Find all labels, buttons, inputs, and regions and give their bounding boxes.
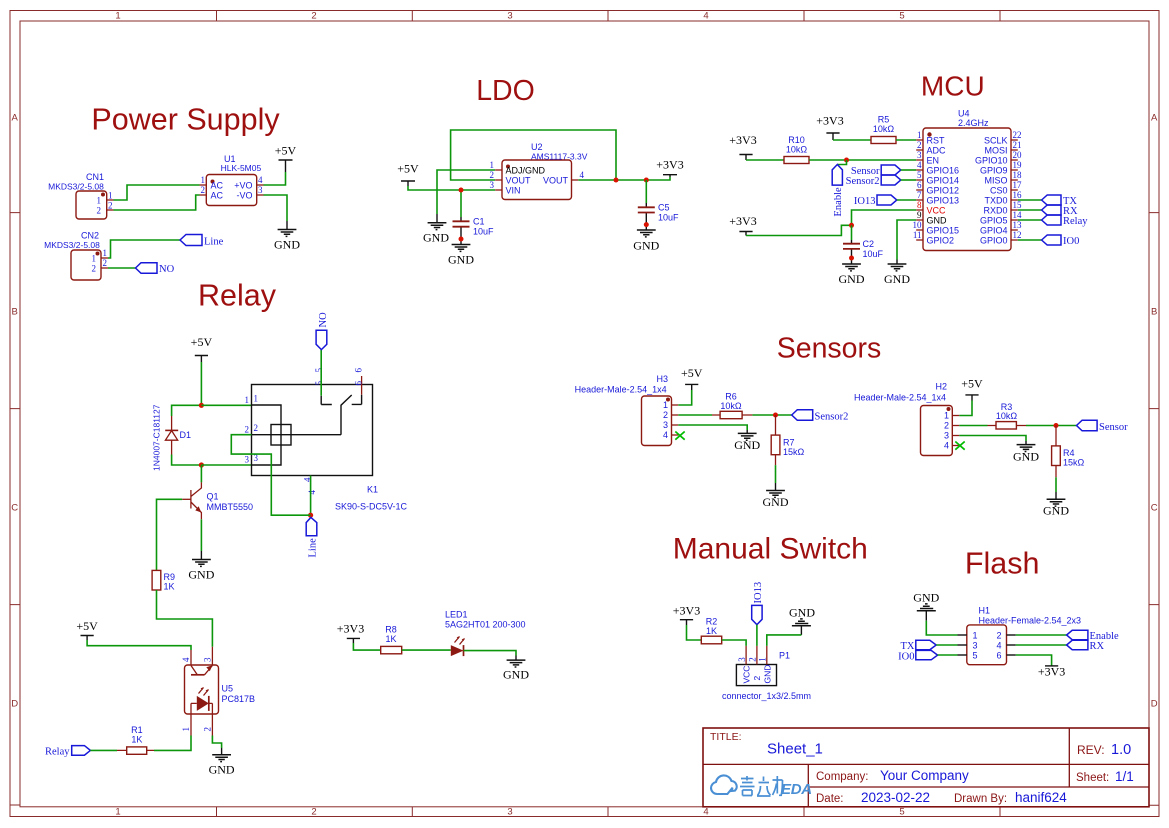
net flag NO	[136, 263, 175, 275]
svg-text:NO: NO	[159, 264, 175, 275]
wire IO13 to U4.GPIO13	[897, 199, 916, 201]
svg-text:NO: NO	[318, 312, 329, 328]
svg-text:1: 1	[92, 254, 97, 264]
svg-text:10uF: 10uF	[658, 213, 679, 223]
svg-text:GND: GND	[503, 668, 529, 682]
svg-text:19: 19	[1013, 160, 1023, 170]
svg-text:U2: U2	[531, 142, 543, 152]
connector P1	[722, 651, 811, 702]
svg-text:Q1: Q1	[207, 492, 219, 502]
led LED1	[445, 610, 526, 657]
svg-text:AC: AC	[211, 191, 224, 201]
svg-text:SCLK: SCLK	[984, 135, 1008, 145]
svg-text:4: 4	[181, 657, 191, 662]
svg-text:2023-02-22: 2023-02-22	[861, 790, 930, 805]
svg-text:GND: GND	[1043, 504, 1069, 518]
wire H3.3 to GND	[678, 425, 747, 430]
capacitor C2	[843, 225, 884, 264]
power +5V (LDO)	[397, 162, 419, 187]
net flag Sensor2 (H3)	[792, 410, 849, 423]
svg-text:2: 2	[103, 258, 108, 268]
junction lower node	[199, 462, 204, 467]
pin 1 H2	[952, 415, 959, 417]
net flag TX (H1)	[901, 640, 937, 652]
svg-text:4: 4	[258, 175, 263, 185]
svg-text:Sensor2: Sensor2	[846, 176, 880, 187]
junction VOUT node	[614, 178, 619, 183]
svg-text:4: 4	[703, 807, 708, 818]
svg-text:VOUT: VOUT	[506, 176, 532, 186]
resistor R9 1K	[152, 570, 175, 591]
power +3V3 (R10)	[729, 133, 756, 160]
svg-text:16: 16	[1013, 190, 1023, 200]
svg-text:+VO: +VO	[234, 181, 252, 191]
svg-text:5: 5	[899, 11, 904, 22]
ground GND (H1)	[913, 591, 939, 621]
svg-text:Relay: Relay	[45, 747, 70, 758]
svg-text:A: A	[12, 113, 19, 124]
pin 2 CN2	[101, 267, 108, 269]
svg-text:R8: R8	[385, 625, 397, 635]
pin 5 GPIO14	[916, 179, 923, 181]
svg-text:4: 4	[917, 160, 922, 170]
svg-text:Flash: Flash	[965, 547, 1040, 581]
pin 1 H3	[672, 404, 679, 406]
svg-text:10kΩ: 10kΩ	[996, 411, 1018, 421]
svg-text:VIN: VIN	[506, 186, 521, 196]
wire TX to H1.3	[936, 644, 957, 646]
svg-text:5: 5	[899, 807, 904, 818]
power +5V (opto)	[76, 619, 98, 640]
relay K1 body	[252, 385, 408, 512]
svg-text:2: 2	[108, 200, 113, 210]
svg-text:+5V: +5V	[191, 335, 213, 349]
wire Sensor2 to U4.GPIO14	[901, 179, 916, 181]
pin 4 H2	[952, 445, 959, 447]
wire R8 to LED1	[402, 649, 451, 651]
pin 12 GPIO0	[1011, 239, 1018, 241]
resistor R8 1K	[381, 625, 402, 654]
pin 3 P1	[745, 646, 747, 665]
svg-text:REV:: REV:	[1077, 743, 1105, 757]
svg-text:GPIO13: GPIO13	[927, 195, 960, 205]
wire Sensor to U4.GPIO16	[901, 169, 916, 171]
svg-text:4: 4	[996, 640, 1001, 650]
svg-text:Drawn By:: Drawn By:	[954, 793, 1007, 805]
svg-text:2: 2	[311, 807, 316, 818]
svg-text:3: 3	[258, 185, 263, 195]
svg-text:Sheet:: Sheet:	[1076, 772, 1109, 784]
wire R4 to GND	[1055, 477, 1057, 492]
svg-text:GND: GND	[274, 238, 300, 252]
ground GND (U5)	[209, 748, 235, 777]
pin 6 GPIO12	[916, 189, 923, 191]
svg-text:VCC: VCC	[927, 205, 947, 215]
svg-text:+3V3: +3V3	[337, 622, 364, 636]
wire H3.1 to +5V	[678, 390, 691, 405]
svg-text:HLK-5M05: HLK-5M05	[221, 163, 262, 173]
svg-text:4: 4	[944, 441, 949, 451]
ground GND (C1)	[448, 245, 474, 267]
svg-text:1K: 1K	[706, 626, 717, 636]
power +3V3 (H1, inverted)	[1038, 665, 1065, 679]
wire +3V3 to R8	[353, 643, 380, 650]
pin 22 SCLK	[1011, 139, 1018, 141]
svg-text:D1: D1	[180, 430, 192, 440]
wire TXD0 to TX flag	[1018, 199, 1042, 201]
pin 2 H2	[952, 425, 959, 427]
svg-text:9: 9	[917, 210, 922, 220]
svg-text:11: 11	[913, 230, 922, 240]
pin 20 GPIO10	[1011, 159, 1018, 161]
ground GND (R4)	[1043, 492, 1069, 518]
wire node to D1 top	[172, 405, 202, 416]
svg-text:CS0: CS0	[990, 185, 1008, 195]
svg-text:3: 3	[245, 455, 250, 465]
wire D1 bottom to lower node	[172, 455, 202, 466]
pin 4 GPIO16	[916, 169, 923, 171]
wire Relay flag to R1	[90, 749, 117, 751]
svg-text:GND: GND	[763, 495, 789, 509]
wire U2.2 VOUT loop to output	[451, 130, 616, 180]
svg-text:GND: GND	[927, 215, 948, 225]
svg-text:Relay: Relay	[198, 279, 277, 313]
pin 2 H3	[672, 414, 679, 416]
svg-text:1: 1	[115, 807, 120, 818]
connector CN2	[44, 231, 101, 281]
wire U5.2 to GND	[212, 736, 221, 749]
wire LED1 to GND	[464, 651, 517, 656]
power +5V (relay coil)	[191, 335, 213, 362]
svg-text:1/1: 1/1	[1115, 769, 1134, 784]
svg-text:7: 7	[917, 190, 922, 200]
svg-text:21: 21	[1013, 140, 1022, 150]
svg-text:8: 8	[917, 200, 922, 210]
svg-text:C2: C2	[863, 239, 875, 249]
svg-text:B: B	[1151, 307, 1157, 318]
net flag IO0 (H1)	[898, 650, 937, 662]
power +5V	[275, 144, 297, 173]
svg-text:ADJ/GND: ADJ/GND	[506, 166, 546, 176]
svg-text:5: 5	[917, 170, 922, 180]
pin 3 U1	[257, 194, 264, 196]
svg-text:1K: 1K	[131, 735, 142, 745]
svg-text:3: 3	[507, 807, 512, 818]
svg-text:1: 1	[97, 196, 102, 206]
pin 4 U2	[572, 179, 579, 181]
svg-text:2: 2	[254, 423, 259, 433]
svg-text:+5V: +5V	[76, 619, 98, 633]
pin 2 ADC	[916, 149, 923, 151]
header H2	[854, 382, 952, 456]
wire R10 to U4.EN	[809, 159, 916, 161]
svg-text:VCC: VCC	[742, 666, 752, 684]
net flag Relay	[1042, 215, 1089, 227]
svg-text:1: 1	[245, 395, 250, 405]
svg-text:K1: K1	[367, 485, 378, 495]
svg-text:R4: R4	[1063, 448, 1075, 458]
svg-text:1: 1	[115, 11, 120, 22]
svg-text:A: A	[1151, 113, 1158, 124]
svg-text:+3V3: +3V3	[816, 114, 843, 128]
svg-text:6: 6	[996, 650, 1001, 660]
pin 16 TXD0	[1011, 199, 1018, 201]
svg-text:VOUT: VOUT	[543, 176, 569, 186]
svg-text:5: 5	[972, 650, 977, 660]
wire U1.4 to +5V	[264, 172, 286, 185]
svg-text:3: 3	[737, 657, 747, 662]
svg-text:TXD0: TXD0	[984, 195, 1007, 205]
ground GND (ADJ)	[423, 214, 449, 245]
power +5V (H2)	[961, 377, 983, 401]
no-connect X H3.4	[675, 432, 684, 440]
svg-text:GPIO12: GPIO12	[927, 185, 960, 195]
svg-text:MCU: MCU	[921, 71, 985, 102]
wire lower node to K1.3	[201, 464, 251, 466]
resistor R7 15k	[771, 415, 804, 465]
wire U2.1 ADJ to GND	[437, 170, 495, 214]
svg-text:10: 10	[913, 220, 923, 230]
svg-text:CN2: CN2	[81, 231, 99, 241]
wire IO13 to P1.2	[756, 625, 758, 646]
svg-text:IO13: IO13	[753, 582, 764, 604]
net flag Relay (opto input)	[45, 746, 90, 758]
svg-text:18: 18	[1013, 170, 1023, 180]
svg-text:GND: GND	[789, 606, 815, 620]
pin 1 RST	[916, 139, 923, 141]
svg-text:Header-Female-2.54_2x3: Header-Female-2.54_2x3	[979, 616, 1082, 626]
pin 1 H1	[958, 634, 967, 636]
svg-text:20: 20	[1013, 150, 1023, 160]
net flag IO13 (switch)	[752, 582, 765, 625]
wire R3 to Sensor flag	[1026, 425, 1077, 427]
svg-text:1K: 1K	[385, 634, 396, 644]
svg-text:2: 2	[203, 727, 213, 732]
svg-text:+3V3: +3V3	[729, 214, 756, 228]
svg-text:1: 1	[108, 190, 113, 200]
wire CN1.2 to U1.2	[114, 195, 200, 210]
wire R7 to GND	[775, 465, 777, 483]
svg-text:GND: GND	[423, 231, 449, 245]
wire node to K1.1	[201, 404, 251, 406]
svg-text:D: D	[1151, 699, 1158, 710]
wire VCC node to U4.VCC	[852, 210, 917, 225]
wire K1.4 down to Line node	[310, 476, 312, 516]
svg-text:GND: GND	[913, 591, 939, 605]
pin 14 GPIO5	[1011, 219, 1018, 221]
svg-text:3: 3	[507, 11, 512, 22]
svg-text:10uF: 10uF	[863, 249, 884, 259]
svg-text:1: 1	[972, 630, 977, 640]
svg-text:R7: R7	[783, 438, 795, 448]
svg-text:D: D	[11, 699, 18, 710]
svg-text:15: 15	[1013, 200, 1023, 210]
pin 1 U2	[495, 169, 502, 171]
capacitor C1	[453, 190, 495, 245]
pin 2 H1	[1007, 634, 1016, 636]
svg-text:22: 22	[1013, 130, 1022, 140]
wire +3V3 to R5	[833, 139, 871, 141]
wire IO0 to H1.5	[938, 654, 958, 656]
pin 1 CN2	[101, 257, 108, 259]
ground GND (H3.3)	[734, 430, 760, 452]
svg-text:H1: H1	[979, 606, 991, 616]
svg-text:MISO: MISO	[984, 175, 1007, 185]
ground GND (U4)	[884, 260, 910, 287]
wire EN to Enable flag	[837, 160, 846, 165]
svg-text:EDA: EDA	[781, 781, 812, 798]
pin 11 GPIO2	[916, 239, 923, 241]
resistor R1 1K	[117, 725, 154, 754]
svg-text:MMBT5550: MMBT5550	[207, 502, 254, 512]
wire R9 to U5.3	[157, 590, 213, 647]
svg-text:AMS1117-3.3V: AMS1117-3.3V	[531, 152, 588, 162]
svg-text:-VO: -VO	[236, 191, 252, 201]
wire Q1 emitter to GND	[200, 519, 202, 551]
net flag IO0	[1042, 235, 1080, 247]
svg-text:15kΩ: 15kΩ	[1063, 458, 1085, 468]
junction VCC node	[849, 223, 854, 228]
junction Sensor2 node	[773, 413, 778, 418]
svg-text:2: 2	[92, 264, 97, 274]
wire R1 to U5.1	[154, 736, 191, 751]
ground GND (Q1)	[188, 551, 214, 582]
svg-text:2: 2	[201, 185, 206, 195]
svg-text:1N4007-C181127: 1N4007-C181127	[152, 404, 162, 471]
svg-text:3: 3	[972, 640, 977, 650]
wire CN2.1 to Line flag	[108, 240, 180, 258]
pin 2 CN1	[107, 209, 114, 211]
net flag Sensor2	[846, 175, 901, 187]
svg-text:GPIO4: GPIO4	[980, 225, 1008, 235]
svg-text:3: 3	[490, 180, 495, 190]
svg-text:2.4GHz: 2.4GHz	[958, 118, 989, 128]
svg-text:IO0: IO0	[1063, 236, 1079, 247]
svg-text:AC: AC	[211, 181, 224, 191]
power +3V3 (P1)	[673, 604, 700, 626]
svg-text:Sensors: Sensors	[777, 333, 882, 365]
svg-text:Header-Male-2.54_1x4: Header-Male-2.54_1x4	[575, 385, 667, 395]
svg-text:1: 1	[917, 130, 922, 140]
svg-text:R2: R2	[706, 617, 718, 627]
ground GND (C2)	[839, 264, 865, 286]
svg-text:Header-Male-2.54_1x4: Header-Male-2.54_1x4	[854, 393, 946, 403]
svg-text:Power Supply: Power Supply	[91, 103, 280, 137]
wire +5V down to coil node	[200, 362, 202, 405]
svg-text:LDO: LDO	[476, 75, 535, 107]
wire R5 to U4.RST	[896, 139, 916, 141]
svg-text:12: 12	[1013, 230, 1022, 240]
pin 3 H2	[952, 435, 959, 437]
svg-text:10uF: 10uF	[473, 227, 494, 237]
svg-text:RX: RX	[1090, 641, 1105, 652]
svg-text:GPIO0: GPIO0	[980, 235, 1008, 245]
svg-text:2: 2	[311, 11, 316, 22]
wire U2.4 to +3V3	[578, 177, 670, 180]
svg-text:+5V: +5V	[275, 144, 297, 158]
svg-text:2: 2	[748, 657, 758, 662]
net flag RX (H1)	[1067, 640, 1105, 652]
svg-text:Sheet_1: Sheet_1	[767, 741, 823, 758]
svg-text:3: 3	[944, 431, 949, 441]
svg-text:H3: H3	[657, 374, 669, 384]
svg-text:5AG2HT01 200-300: 5AG2HT01 200-300	[445, 620, 526, 630]
svg-text:IO13: IO13	[854, 196, 876, 207]
svg-text:H2: H2	[936, 382, 948, 392]
pin 4 U1	[257, 184, 264, 186]
svg-text:Line: Line	[308, 538, 319, 558]
power +3V3 (R5)	[816, 114, 843, 141]
resistor R4 15k	[1052, 426, 1085, 478]
wire +5V to U2.VIN	[408, 186, 495, 190]
wire GND to P1.1	[767, 635, 802, 646]
svg-text:4: 4	[703, 11, 708, 22]
svg-text:LED1: LED1	[445, 610, 468, 620]
svg-text:+3V3: +3V3	[656, 158, 683, 172]
svg-text:GND: GND	[734, 438, 760, 452]
wire U4.GND to GND	[897, 220, 916, 260]
svg-text:2: 2	[996, 630, 1001, 640]
wire H3.2 to R6	[678, 414, 712, 416]
svg-text:6: 6	[354, 381, 364, 386]
header H3	[575, 374, 672, 446]
pin 18 MISO	[1011, 179, 1018, 181]
svg-text:14: 14	[1013, 210, 1023, 220]
svg-text:MKDS3/2-5.08: MKDS3/2-5.08	[44, 240, 100, 250]
svg-text:+3V3: +3V3	[729, 133, 756, 147]
resistor R5 10k	[871, 115, 896, 144]
svg-text:GND: GND	[448, 253, 474, 267]
wire CN2.2 to NO flag	[108, 267, 136, 269]
svg-text:Enable: Enable	[833, 187, 844, 216]
svg-text:PC817B: PC817B	[222, 694, 256, 704]
resistor R10 10k	[784, 135, 809, 164]
wire +3V3 to R10	[746, 159, 784, 161]
wire R6 to Sensor2 flag	[752, 414, 791, 416]
junction C1 top	[459, 188, 464, 193]
svg-text:2: 2	[917, 140, 922, 150]
svg-text:C: C	[11, 503, 18, 514]
wire H1.4 to RX flag	[1016, 644, 1067, 646]
net flag Sensor	[851, 165, 901, 177]
svg-text:GND: GND	[884, 272, 910, 286]
svg-text:R1: R1	[131, 725, 143, 735]
svg-text:+3V3: +3V3	[1038, 665, 1065, 679]
svg-text:5: 5	[314, 368, 324, 373]
net flag IO13	[854, 195, 897, 207]
wire H1.6 to +3V3	[1016, 655, 1052, 666]
svg-text:RST: RST	[927, 135, 946, 145]
svg-text:B: B	[12, 307, 18, 318]
svg-text:GPIO2: GPIO2	[927, 235, 955, 245]
wire +3V3 to VCC node	[746, 225, 852, 235]
pin 2 U2	[495, 179, 502, 181]
svg-text:Manual Switch: Manual Switch	[673, 533, 868, 566]
pin 17 CS0	[1011, 189, 1018, 191]
junction C2 bottom	[849, 256, 854, 261]
pin 15 RXD0	[1011, 209, 1018, 211]
pin 3 EN	[916, 159, 923, 161]
net flag Enable	[832, 165, 844, 217]
svg-text:10kΩ: 10kΩ	[720, 401, 742, 411]
net flag Enable (H1)	[1067, 630, 1119, 642]
pin 10 GPIO15	[916, 229, 923, 231]
power +3V3 (LED)	[337, 622, 364, 644]
svg-text:1: 1	[758, 657, 768, 662]
svg-text:GPIO15: GPIO15	[927, 225, 960, 235]
svg-text:6: 6	[917, 180, 922, 190]
svg-text:Sensor: Sensor	[1099, 422, 1128, 433]
